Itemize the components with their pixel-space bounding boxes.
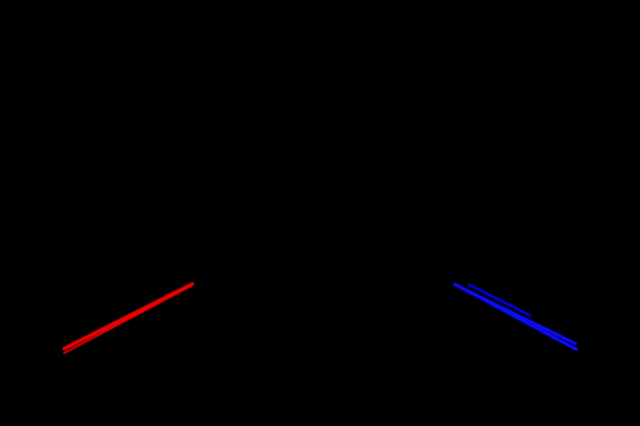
- red light streak thin lower strand: [64, 286, 191, 353]
- blue light streak short upper-left strand: [469, 285, 530, 316]
- blue light streak upper long strand: [457, 285, 576, 343]
- red light streak main strand: [64, 284, 192, 349]
- blue light streak long lower strand: [455, 284, 577, 349]
